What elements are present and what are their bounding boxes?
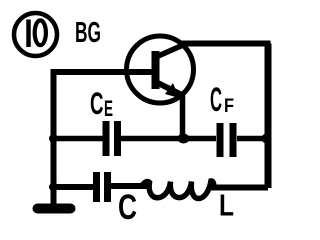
- wire bottom row left segment: [51, 184, 93, 190]
- svg-text:C: C: [118, 188, 137, 227]
- wire left rail: [51, 69, 57, 207]
- wire emitter lead down: [180, 93, 186, 141]
- wire middle row right segment: [237, 136, 268, 142]
- wire collector to top right: [180, 41, 271, 47]
- transistor emitter stroke with arrow: [156, 82, 182, 98]
- capacitor CE: [106, 121, 118, 156]
- wire bottom row segment to inductor: [111, 183, 148, 189]
- node emitter junction: [178, 134, 190, 144]
- label CE: [90, 85, 113, 121]
- capacitor C: [97, 172, 108, 202]
- capacitor CF: [220, 123, 233, 157]
- svg-text:C: C: [210, 81, 222, 119]
- wire middle row center segment: [121, 136, 216, 142]
- wire middle row left segment: [51, 136, 103, 142]
- ground: [38, 204, 71, 214]
- node right rail junction: [262, 134, 272, 144]
- svg-text:F: F: [224, 96, 234, 117]
- node left rail bottom junction: [49, 183, 58, 192]
- wire base horizontal: [51, 69, 155, 75]
- figure number circle 10: [14, 13, 57, 56]
- transistor Q1 (BG) circle: [127, 36, 194, 103]
- svg-text:E: E: [104, 96, 113, 121]
- wire right rail: [265, 44, 272, 189]
- label CF: [210, 81, 234, 119]
- svg-text:BG: BG: [75, 17, 101, 49]
- svg-text:C: C: [90, 85, 104, 121]
- node left rail middle junction: [49, 134, 58, 143]
- svg-text:L: L: [219, 188, 234, 223]
- inductor L: [142, 181, 214, 199]
- wire bottom row right segment: [211, 185, 268, 191]
- transistor base bar: [152, 51, 160, 89]
- transistor collector stroke: [156, 45, 183, 57]
